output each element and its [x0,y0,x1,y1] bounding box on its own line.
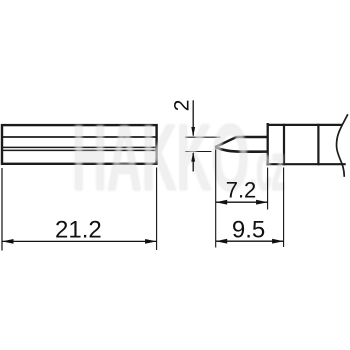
svg-text:HAKKO: HAKKO [72,105,249,211]
svg-text:21.2: 21.2 [55,217,102,244]
svg-text:9.5: 9.5 [232,216,265,243]
svg-text:7.2: 7.2 [226,177,257,202]
svg-text:2: 2 [170,100,193,112]
